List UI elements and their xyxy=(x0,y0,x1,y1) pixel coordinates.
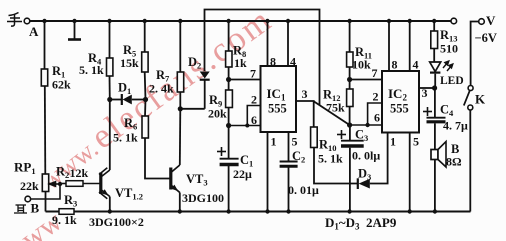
svg-text:2: 2 xyxy=(251,93,257,107)
svg-text:5. 1k: 5. 1k xyxy=(318,152,343,166)
resistor R3 in bottom wire xyxy=(59,209,74,215)
RP1 wiper arrow xyxy=(50,182,61,186)
svg-text:V: V xyxy=(486,13,496,28)
capacitor C4 electrolytic xyxy=(427,117,446,119)
wire to IC1 pin 7 xyxy=(229,79,261,81)
svg-text:1k: 1k xyxy=(234,56,247,70)
IC1 pin 2 wire xyxy=(247,106,260,126)
node R12/C3/diagonal xyxy=(347,122,352,127)
VT3 collector wire up xyxy=(179,110,182,166)
svg-text:K: K xyxy=(475,92,486,107)
IC1 pin 4 xyxy=(287,21,289,66)
IC1 pin 8 xyxy=(267,21,269,66)
speaker B xyxy=(431,150,438,160)
svg-text:3: 3 xyxy=(302,87,308,101)
svg-text:4: 4 xyxy=(413,58,419,72)
wire node to IC2 pin6 and pin2 tie xyxy=(350,124,382,126)
wire V terminal to switch xyxy=(471,22,479,86)
IC1 pin 3 wire xyxy=(296,101,314,127)
node rail/R5 xyxy=(143,19,147,23)
resistor R1 xyxy=(41,69,47,86)
IC2 pin 4 xyxy=(409,21,411,71)
node rail/R4 xyxy=(107,19,111,23)
VT1 collector wire up to D1 node xyxy=(109,100,111,171)
terminal circle rail right end xyxy=(451,18,457,24)
watermark www.elecfans.com diagonals xyxy=(15,0,279,241)
svg-text:1: 1 xyxy=(390,135,396,149)
wire RP1 bottom to bottom rail xyxy=(45,192,47,212)
resistor R7 xyxy=(179,21,181,72)
capacitor C1 electrolytic xyxy=(228,126,230,159)
resistor R5 xyxy=(144,21,146,52)
svg-text:555: 555 xyxy=(390,102,409,116)
transistor VT3 xyxy=(171,165,180,193)
svg-text:75k: 75k xyxy=(326,101,345,115)
terminal B circle xyxy=(25,196,31,202)
node rail/R7 xyxy=(178,19,182,23)
node R8/R9/pin7 xyxy=(226,77,231,82)
svg-text:22μ: 22μ xyxy=(233,167,252,181)
IC2 pin 5 xyxy=(409,133,411,212)
svg-text:3: 3 xyxy=(422,86,428,100)
IC1 pin 5 xyxy=(288,132,290,161)
resistor R12 xyxy=(347,89,353,107)
svg-text:0. 01μ: 0. 01μ xyxy=(288,183,319,197)
resistor R11 xyxy=(349,21,351,52)
transistor VT1,2 (two in parallel) xyxy=(99,168,110,199)
resistor R2 xyxy=(60,183,66,185)
resistor R10 xyxy=(311,127,318,148)
svg-text:8: 8 xyxy=(270,55,276,69)
node wiper/R2 xyxy=(58,182,62,186)
node R9/C1/pin6 xyxy=(226,123,231,128)
svg-text:5: 5 xyxy=(413,135,419,149)
svg-text:62k: 62k xyxy=(52,78,71,92)
svg-text:5: 5 xyxy=(292,135,298,149)
resistor R4 xyxy=(109,21,111,58)
resistor R6 xyxy=(144,100,147,117)
node D1 left xyxy=(107,97,112,102)
svg-text:8: 8 xyxy=(392,58,398,72)
LED xyxy=(430,62,441,72)
svg-text:8Ω: 8Ω xyxy=(446,155,462,169)
potentiometer RP1 xyxy=(42,174,48,192)
capacitor C3 electrolytic xyxy=(349,125,351,140)
IC1 pin 1 xyxy=(267,132,269,212)
svg-text:2. 4k: 2. 4k xyxy=(149,82,174,96)
svg-text:3DG100×2: 3DG100×2 xyxy=(89,215,144,229)
svg-text:15k: 15k xyxy=(120,56,139,70)
resistor R13 xyxy=(433,21,435,31)
IC2 pin 8 xyxy=(388,21,390,71)
svg-text:9. 1k: 9. 1k xyxy=(52,213,77,227)
svg-text:0. 0lμ: 0. 0lμ xyxy=(352,149,380,163)
svg-text:5. 1k: 5. 1k xyxy=(113,131,138,145)
resistor R9 xyxy=(226,90,233,108)
IC1 pin 6 wire xyxy=(229,125,261,127)
svg-text:10k: 10k xyxy=(352,58,371,72)
wire to IC2 pin7 xyxy=(350,79,382,81)
diode D3 (cathode left) xyxy=(357,178,359,189)
svg-text:LED: LED xyxy=(440,75,464,87)
svg-text:1: 1 xyxy=(271,135,277,149)
svg-text:22k: 22k xyxy=(20,179,39,193)
wire diagonal IC1 pin3 node to R12/C3 node xyxy=(314,102,350,126)
svg-text:7: 7 xyxy=(250,67,256,81)
svg-text:5. 1k: 5. 1k xyxy=(79,63,104,77)
node rail/R13 xyxy=(432,19,436,23)
node rail/R8 xyxy=(226,19,230,23)
svg-text:555: 555 xyxy=(268,102,287,116)
node R7/D2/VT3 xyxy=(178,106,183,111)
svg-text:A: A xyxy=(29,24,39,39)
terminal A circle xyxy=(24,18,30,24)
switch K xyxy=(468,86,473,91)
wire R1 to RP1 xyxy=(44,86,47,174)
IC2 pin 3 wire xyxy=(419,87,435,89)
svg-text:−6V: −6V xyxy=(475,31,497,45)
node D1 right / R5 / R6 xyxy=(143,97,148,102)
svg-text:3DG100: 3DG100 xyxy=(182,191,224,205)
wire switch to bottom rail xyxy=(469,110,471,212)
svg-text:6: 6 xyxy=(251,113,257,127)
svg-text:2: 2 xyxy=(373,90,379,104)
svg-text:4: 4 xyxy=(290,55,296,69)
node rail/R11 xyxy=(347,19,351,23)
svg-text:7: 7 xyxy=(372,66,378,80)
label 手 (hand) xyxy=(7,13,22,27)
node R11/R12/pin7 xyxy=(347,77,352,82)
bottom rail xyxy=(46,210,471,212)
resistor R8 xyxy=(228,21,230,51)
VT1 emitter wire down to rail xyxy=(109,197,111,212)
svg-text:510: 510 xyxy=(440,42,458,56)
svg-text:4. 7μ: 4. 7μ xyxy=(443,119,468,133)
wire wiper node down and left to terminal B xyxy=(31,184,60,199)
wire rail to R1 xyxy=(44,21,46,69)
top bypass wire from D2 column to IC1 pin3 node xyxy=(205,10,320,106)
svg-text:12k: 12k xyxy=(70,166,89,180)
VT3 emitter wire down xyxy=(179,193,181,212)
svg-text:20k: 20k xyxy=(208,107,227,121)
capacitor C2 xyxy=(280,161,298,163)
IC U2: IC2 555 timer box xyxy=(382,71,419,133)
top rail xyxy=(30,20,452,22)
diode D1 (cathode left) xyxy=(110,99,121,101)
node: rail to R1 xyxy=(42,19,46,23)
IC U1: IC1 555 timer box xyxy=(261,66,297,132)
svg-text:B: B xyxy=(31,201,40,216)
terminal V xyxy=(479,19,485,25)
label 耳 (ear) xyxy=(14,205,27,214)
ground symbol on top rail xyxy=(68,21,81,40)
diode D2 (pointing down) xyxy=(200,72,210,79)
svg-text:6: 6 xyxy=(374,111,380,125)
